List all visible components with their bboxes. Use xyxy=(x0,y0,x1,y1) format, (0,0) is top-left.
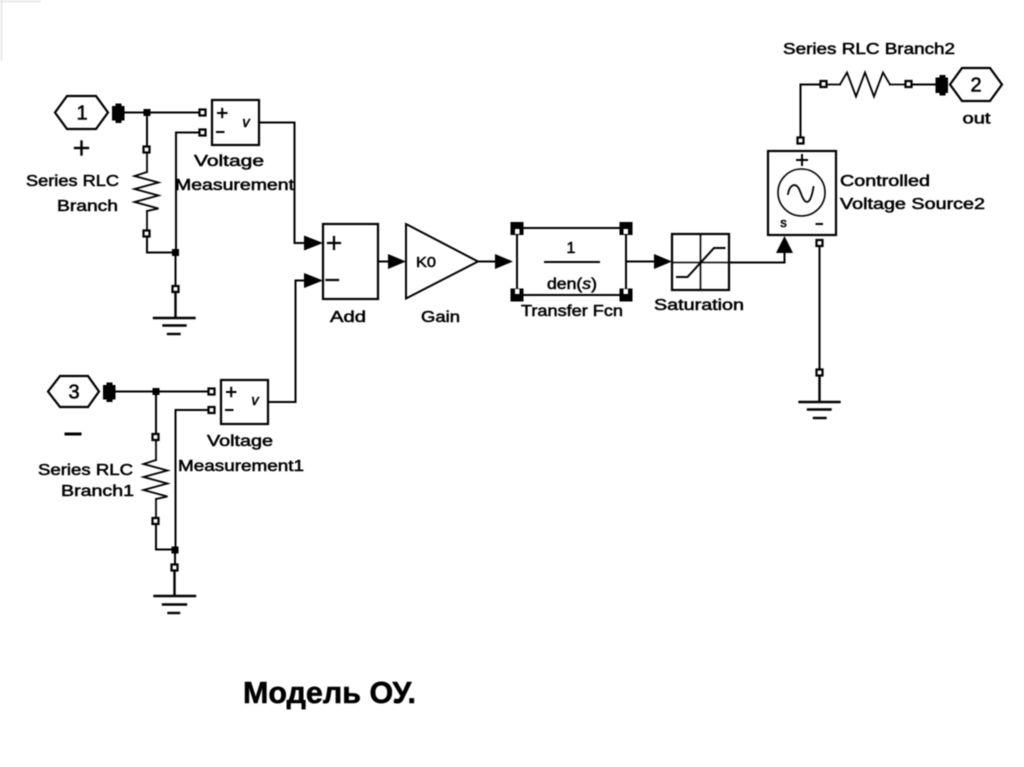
label Controlled Voltage Source2 xyxy=(840,173,985,213)
node - label under inport 3 xyxy=(66,433,80,436)
ground 1 xyxy=(154,292,195,334)
svg-text:Branch: Branch xyxy=(57,198,118,215)
svg-text:v: v xyxy=(242,115,250,131)
selection handles Transfer Fcn xyxy=(511,222,633,302)
ground 2 xyxy=(155,571,196,613)
R2 top port marker xyxy=(153,434,159,440)
svg-text:Controlled: Controlled xyxy=(840,173,930,190)
CVS bottom-right port marker xyxy=(817,240,823,246)
outport 2 xyxy=(950,68,1002,101)
arrow into Gain xyxy=(388,254,406,269)
svg-text:Voltage Source2: Voltage Source2 xyxy=(840,196,985,213)
svg-text:Add: Add xyxy=(330,309,366,326)
resistor R3 (Series RLC Branch2) xyxy=(827,73,905,97)
inport 3 xyxy=(48,376,99,407)
Controlled Voltage Source2 block xyxy=(768,151,836,235)
svg-text:den(s): den(s) xyxy=(547,276,597,293)
svg-text:1: 1 xyxy=(567,240,576,257)
arrow into Add + xyxy=(304,236,323,251)
R2 bottom port marker xyxy=(153,518,159,524)
label Series RLC Branch1 xyxy=(38,462,134,500)
svg-text:Measurement: Measurement xyxy=(175,177,295,194)
label Voltage Measurement xyxy=(175,153,295,194)
wire VM1- to down rail xyxy=(176,410,209,550)
wire R1 bottom to junction xyxy=(147,237,176,253)
svg-text:3: 3 xyxy=(68,382,79,404)
port marker VM- xyxy=(200,130,206,136)
ground2 port marker xyxy=(172,565,178,571)
svg-text:K0: K0 xyxy=(416,254,436,271)
ground 3 xyxy=(800,376,840,418)
inport 1 xyxy=(55,96,108,129)
R1 top port marker xyxy=(144,147,150,153)
junction node below VM1 xyxy=(172,547,179,554)
wire junction to ground port xyxy=(175,253,177,287)
Add block xyxy=(323,224,378,299)
connector dot port1 xyxy=(112,104,125,124)
connector dot port2 xyxy=(936,75,949,96)
svg-text:v: v xyxy=(251,393,259,409)
wire R2 bottom to junction xyxy=(156,524,175,550)
svg-text:Branch1: Branch1 xyxy=(61,483,134,500)
Saturation block xyxy=(672,234,729,290)
wire port1 to VM+ xyxy=(124,112,199,114)
wire Gain out xyxy=(478,261,496,263)
svg-text:Модель ОУ.: Модель ОУ. xyxy=(243,675,416,710)
svg-text:Gain: Gain xyxy=(421,309,460,326)
svg-text:s: s xyxy=(780,215,787,230)
wire CVS top to RLC2 xyxy=(801,85,821,138)
R3 left port marker xyxy=(821,81,827,87)
wire TF out xyxy=(626,261,655,263)
voltage measurement U1 block xyxy=(212,100,259,145)
svg-text:Series RLC Branch2: Series RLC Branch2 xyxy=(783,41,955,58)
wire VM1 out rail up to Add - xyxy=(296,281,305,403)
svg-text:Transfer Fcn: Transfer Fcn xyxy=(521,303,623,320)
Gain triangle xyxy=(406,224,478,299)
R1 bottom port marker xyxy=(144,231,150,237)
junction node below VM xyxy=(172,249,179,256)
wire VM1 out xyxy=(268,401,296,403)
wire VM- to down rail xyxy=(176,133,199,253)
junction node at R2 branch xyxy=(153,388,160,395)
slide border xyxy=(0,0,40,60)
label Voltage Measurement1 xyxy=(178,433,304,475)
wire Add out xyxy=(378,261,389,263)
junction node at R1 branch xyxy=(144,109,151,116)
node + label under inport 1 xyxy=(75,142,88,155)
arrow into Add - xyxy=(304,273,323,288)
voltage measurement1 block xyxy=(221,380,268,424)
svg-text:Series RLC: Series RLC xyxy=(26,173,119,190)
svg-text:Measurement1: Measurement1 xyxy=(178,458,304,475)
svg-text:Series RLC: Series RLC xyxy=(38,462,133,479)
wire VM out to Add + xyxy=(259,123,304,244)
svg-text:Voltage: Voltage xyxy=(194,153,264,170)
port marker VM1- xyxy=(209,407,215,413)
ground3 port marker xyxy=(817,370,823,376)
svg-text:2: 2 xyxy=(970,75,981,97)
wire branch to R2 top xyxy=(155,392,157,434)
label Series RLC Branch xyxy=(26,173,119,215)
ground1 port marker xyxy=(173,286,179,292)
port marker VM+ xyxy=(200,110,206,116)
svg-text:1: 1 xyxy=(76,103,87,125)
resistor R2 (Series RLC Branch1) xyxy=(144,440,168,518)
wire junction to ground2 port xyxy=(174,550,176,564)
arrow into Transfer Fcn xyxy=(495,254,513,269)
R3 right port marker xyxy=(906,81,912,87)
wire port3 to VM1+ xyxy=(115,391,208,393)
wire R3 to outport 2 xyxy=(912,84,936,86)
port marker VM1+ xyxy=(209,389,215,395)
wire CVS minus to ground xyxy=(819,246,821,369)
arrow into Saturation xyxy=(654,254,672,269)
arrow up into CVS xyxy=(776,236,793,253)
connector dot port3 xyxy=(103,383,116,403)
svg-text:Voltage: Voltage xyxy=(207,433,273,450)
resistor R1 (Series RLC Branch) xyxy=(135,153,159,231)
Transfer Fcn block xyxy=(517,228,626,295)
wire Saturation out to CVS s-input xyxy=(729,252,785,263)
svg-text:out: out xyxy=(963,111,992,128)
svg-text:Saturation: Saturation xyxy=(654,297,744,314)
wire branch to R1 top xyxy=(146,113,148,147)
CVS top port marker xyxy=(798,138,804,144)
